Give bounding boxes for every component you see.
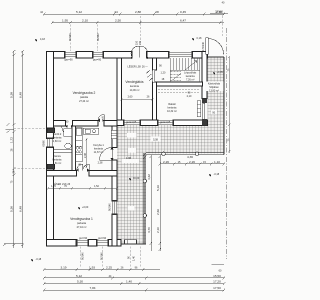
kitchen counter [83, 128, 99, 134]
room label lepcsohaz [181, 70, 200, 81]
wall V1 top [47, 170, 118, 176]
svg-text:LÉSER LSK 26 —: LÉSER LSK 26 — [128, 66, 149, 69]
terrace bottom steps [117, 240, 146, 244]
svg-text:gsz=90: gsz=90 [65, 59, 74, 62]
svg-text:-0,18: -0,18 [36, 258, 42, 261]
room label kamra [53, 155, 63, 165]
svg-text:1,20: 1,20 [161, 72, 166, 75]
room label V1 [70, 217, 93, 229]
corner ticks terrace edge [143, 152, 146, 158]
svg-text:1,10: 1,10 [214, 160, 220, 164]
svg-text:90/140: 90/140 [108, 203, 111, 211]
svg-text:kerámia: kerámia [130, 85, 140, 88]
door swing ticks [146, 70, 152, 81]
svg-text:1,93: 1,93 [89, 265, 95, 269]
wall right rooms east [202, 51, 207, 98]
terrace edge lines [144, 57, 224, 244]
right property dash-dot line [225, 28, 227, 259]
svg-text:7,26 m²: 7,26 m² [186, 79, 195, 82]
top dim texts [40, 1, 225, 22]
svg-text:+0,00: +0,00 [82, 206, 89, 209]
svg-text:Vendéglátós: Vendéglátós [125, 80, 144, 84]
svg-text:gsz=90: gsz=90 [79, 237, 88, 240]
projection dashed left [14, 129, 46, 169]
interior small dims [66, 92, 192, 212]
svg-text:±0,00: ±0,00 [133, 177, 140, 180]
wall horizontal mid bottom (y120.5) [117, 120, 208, 126]
svg-text:1,40: 1,40 [126, 280, 132, 284]
radiator raktar [197, 101, 201, 117]
dark pier below door [202, 119, 207, 125]
terrace tiled area L-shape [117, 57, 224, 244]
svg-text:5,30: 5,30 [77, 280, 83, 284]
svg-text:13,80 m²: 13,80 m² [209, 90, 219, 93]
double door V1 [77, 164, 89, 170]
left dim texts rotated [10, 92, 23, 212]
door east wall konyha [100, 148, 113, 161]
bottom dim line B4 [43, 289, 225, 292]
svg-text:27,80: 27,80 [215, 9, 223, 13]
svg-text:gsz=1,65: gsz=1,65 [126, 121, 137, 124]
svg-text:5,36: 5,36 [10, 206, 14, 212]
svg-text:gsz=1,65: gsz=1,65 [160, 121, 171, 124]
left dim line L2 [21, 54, 24, 248]
svg-text:2,26: 2,26 [189, 160, 195, 164]
gate arc top right [206, 38, 224, 55]
door V2 corridor [62, 126, 72, 138]
room label V2 [73, 91, 96, 103]
svg-text:6,47: 6,47 [180, 19, 186, 23]
svg-text:2,88: 2,88 [135, 10, 141, 14]
bottom dim texts [60, 265, 222, 290]
svg-text:2,38: 2,38 [84, 153, 87, 158]
svg-text:gsz=90: gsz=90 [98, 237, 107, 240]
svg-text:2,50: 2,50 [115, 19, 121, 23]
bottom under-terrace labels [128, 256, 136, 261]
svg-text:27,44 m²: 27,44 m² [77, 226, 87, 229]
svg-text:28: 28 [155, 10, 159, 14]
left small ticks extra [3, 123, 23, 246]
room label raktar [167, 103, 177, 113]
svg-text:27,44 m²: 27,44 m² [79, 100, 89, 103]
svg-text:-0,18: -0,18 [214, 173, 220, 176]
wall top main [47, 51, 208, 58]
wall bottom left block [47, 240, 122, 247]
top dim line T2 [51, 21, 224, 24]
svg-text:1,61 m²: 1,61 m² [53, 162, 62, 165]
svg-text:1,40: 1,40 [133, 256, 136, 261]
wall stair/raktar divider [156, 82, 202, 86]
door jamb ticks [66, 119, 114, 172]
svg-text:5,38: 5,38 [10, 92, 14, 98]
window left furdo [48, 139, 53, 147]
svg-text:170/240: 170/240 [202, 41, 205, 51]
svg-text:0,18: 0,18 [197, 37, 202, 40]
svg-text:90/140: 90/140 [82, 252, 85, 260]
svg-text:150: 150 [136, 40, 139, 45]
svg-text:3,70: 3,70 [147, 227, 151, 233]
svg-text:1,95: 1,95 [62, 19, 68, 23]
svg-text:4,36: 4,36 [187, 155, 193, 159]
svg-text:parketta: parketta [77, 222, 87, 225]
window labels rotated [65, 33, 205, 260]
window mid-bottom 2 [158, 121, 173, 125]
door middle divider leaf [153, 70, 155, 82]
svg-text:11,67 m²: 11,67 m² [94, 151, 104, 154]
svg-text:2,10: 2,10 [187, 95, 192, 98]
stairs [170, 58, 200, 82]
window top stair [169, 52, 192, 57]
top dim line T1 [43, 13, 225, 16]
extra halo dim text in band B [151, 137, 161, 142]
svg-text:5,16: 5,16 [156, 185, 160, 191]
svg-text:2,60 m²: 2,60 m² [53, 140, 62, 143]
dim row under terrace band [159, 162, 225, 165]
wall east of left block [112, 126, 117, 247]
level markers [29, 38, 217, 262]
svg-text:240: 240 [139, 40, 142, 45]
svg-text:90/140: 90/140 [101, 252, 104, 260]
svg-text:14,06 m²: 14,06 m² [130, 89, 140, 92]
svg-text:4,62: 4,62 [147, 174, 151, 180]
svg-text:60/60: 60/60 [43, 140, 46, 147]
bottom dim line B3 [43, 282, 225, 285]
svg-text:17,50: 17,50 [213, 286, 221, 290]
svg-text:7,84: 7,84 [89, 286, 95, 290]
bath fixtures [64, 129, 72, 149]
wall middle/right rooms divider [152, 58, 156, 126]
svg-text:0,45: 0,45 [180, 10, 186, 14]
door into V2 [98, 114, 104, 120]
door leaf in east wall [203, 103, 205, 119]
svg-text:1,72: 1,72 [10, 137, 14, 143]
svg-text:1,70: 1,70 [51, 185, 56, 188]
wall bath divider vertical [72, 126, 76, 170]
radiator east wall [111, 130, 117, 138]
svg-text:5,12: 5,12 [76, 10, 82, 14]
svg-text:6,48: 6,48 [18, 92, 22, 98]
corridor dim line [47, 187, 118, 189]
wall between V2 and middle block [117, 58, 122, 126]
bottom dim line B2 [43, 276, 225, 279]
svg-text:17,20: 17,20 [213, 280, 221, 284]
left dim line L1 [12, 54, 15, 248]
svg-text:44: 44 [114, 10, 118, 14]
svg-text:3,19: 3,19 [60, 265, 66, 269]
svg-text:pakolta: pakolta [80, 96, 89, 99]
left dim top ticks [12, 50, 24, 55]
svg-text:2,38: 2,38 [98, 161, 103, 164]
terrace columns [143, 152, 199, 217]
svg-text:2,26: 2,26 [163, 160, 169, 164]
projection dashed bottom [81, 247, 141, 269]
right mid vertical dims [150, 155, 161, 251]
svg-text:4,18: 4,18 [40, 38, 45, 41]
entry door opening + double swing [131, 46, 148, 58]
room label eloszoba [125, 80, 144, 92]
window top W1 [65, 52, 76, 57]
svg-text:10,32 m²: 10,32 m² [167, 110, 177, 113]
top right sub line [210, 12, 228, 14]
wall V2 bottom [54, 121, 118, 127]
raktar dashed lintel [158, 90, 200, 93]
svg-text:2,25: 2,25 [106, 265, 112, 269]
svg-text:90/140: 90/140 [69, 33, 72, 41]
svg-text:90/140: 90/140 [97, 33, 100, 41]
window east V1 [113, 201, 116, 214]
wall junction stubs left [47, 128, 55, 169]
svg-text:2,10: 2,10 [82, 19, 88, 23]
svg-text:1,52: 1,52 [94, 185, 99, 188]
wall bath/kamra divider [54, 150, 72, 153]
window mid-bottom 1 [124, 121, 140, 125]
svg-text:15,50: 15,50 [213, 274, 221, 278]
svg-text:Vendégszoba 1: Vendégszoba 1 [70, 217, 93, 221]
stove burners [76, 147, 81, 153]
kitchen counter west strip [76, 128, 82, 162]
svg-text:5,08: 5,08 [153, 139, 158, 142]
svg-text:2,10: 2,10 [156, 227, 160, 233]
window bottom W1 [77, 241, 88, 246]
window jamb marks [47, 52, 193, 246]
room label terasz [205, 82, 224, 93]
room label furdo [53, 133, 63, 143]
window bottom W2 [97, 241, 108, 246]
svg-text:5,12: 5,12 [76, 274, 82, 278]
wall left [47, 51, 54, 246]
stair small dims [159, 65, 166, 82]
right edge mini dims [228, 56, 230, 153]
dark pier above door [202, 98, 207, 103]
projection dashed lines top [71, 16, 223, 51]
svg-text:+0,05: +0,05 [217, 71, 224, 74]
svg-text:2,60: 2,60 [128, 96, 133, 99]
window top W2 [93, 52, 103, 57]
svg-text:6,48: 6,48 [18, 206, 22, 212]
svg-text:Vendégszoba 2: Vendégszoba 2 [73, 91, 96, 95]
svg-text:gsz=90: gsz=90 [93, 59, 102, 62]
room label konyha [93, 144, 104, 154]
konyha vertical dim [85, 138, 87, 168]
bottom dim line B1 [43, 268, 160, 271]
svg-text:2,66: 2,66 [156, 209, 160, 215]
